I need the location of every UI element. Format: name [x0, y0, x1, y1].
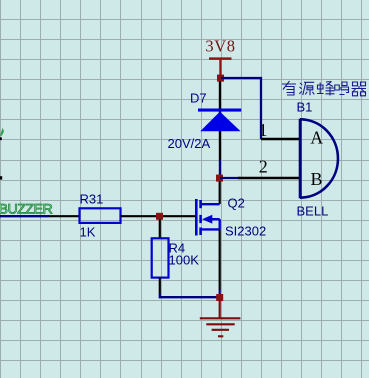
- transistor Q2 SI2302: [196, 199, 219, 236]
- buzzer pin 2: [238, 177, 300, 179]
- svg-text:20V/2A: 20V/2A: [168, 136, 211, 151]
- wire left net (navy): [0, 215, 49, 217]
- label 有源蜂鸣器 (active buzzer): [282, 81, 366, 96]
- wire to R31 (black): [49, 215, 79, 217]
- node junction J2 (drain net): [216, 175, 223, 182]
- wire Q2 source down (black): [219, 229, 221, 290]
- resistor R4: [152, 238, 169, 277]
- clipped wire end dot upper: [0, 137, 2, 140]
- ground symbol: [200, 318, 241, 336]
- wire R4 bottom (black): [159, 278, 161, 294]
- buzzer B1 symbol: [300, 119, 338, 198]
- node junction J1 (3V8 net): [217, 75, 224, 82]
- svg-text:1: 1: [259, 120, 268, 140]
- diode D7: [198, 109, 241, 132]
- resistor R31: [80, 208, 121, 223]
- svg-text:2: 2: [259, 157, 268, 177]
- svg-text:B1: B1: [297, 100, 313, 115]
- svg-text:1K: 1K: [80, 225, 96, 240]
- svg-text:A: A: [310, 128, 323, 148]
- svg-text:100K: 100K: [169, 253, 200, 268]
- clipped wire end dot lower: [0, 176, 2, 179]
- wire J4 down to R4 (black): [159, 220, 161, 239]
- clipped green mark at left edge: [0, 128, 4, 136]
- wire R31 to Q2 gate (black): [121, 215, 196, 217]
- wire diode bottom to J2 (navy): [219, 160, 221, 175]
- svg-text:3V8: 3V8: [205, 37, 235, 56]
- wire J2 down to Q2 drain (black): [219, 181, 221, 204]
- wire to ground (dark red): [219, 301, 221, 319]
- svg-text:BELL: BELL: [297, 204, 329, 219]
- wire diode top lead (black): [219, 81, 221, 160]
- buzzer pin 1: [261, 138, 300, 140]
- svg-text:D7: D7: [190, 91, 207, 106]
- wire J2 to pin2 (navy): [220, 177, 240, 179]
- node junction J4 (gate net): [156, 213, 163, 220]
- wire bottom net to J3 (navy): [160, 294, 220, 298]
- svg-text:B: B: [310, 169, 322, 189]
- wire source to J3 (navy): [219, 290, 221, 297]
- svg-text:Q2: Q2: [228, 196, 245, 211]
- node junction J3 (ground net): [216, 294, 223, 301]
- svg-text:R31: R31: [80, 192, 104, 207]
- svg-text:SI2302: SI2302: [225, 224, 266, 239]
- wire J1 to buzzer pin1 corner: [221, 78, 261, 139]
- power 3V8: [205, 37, 235, 75]
